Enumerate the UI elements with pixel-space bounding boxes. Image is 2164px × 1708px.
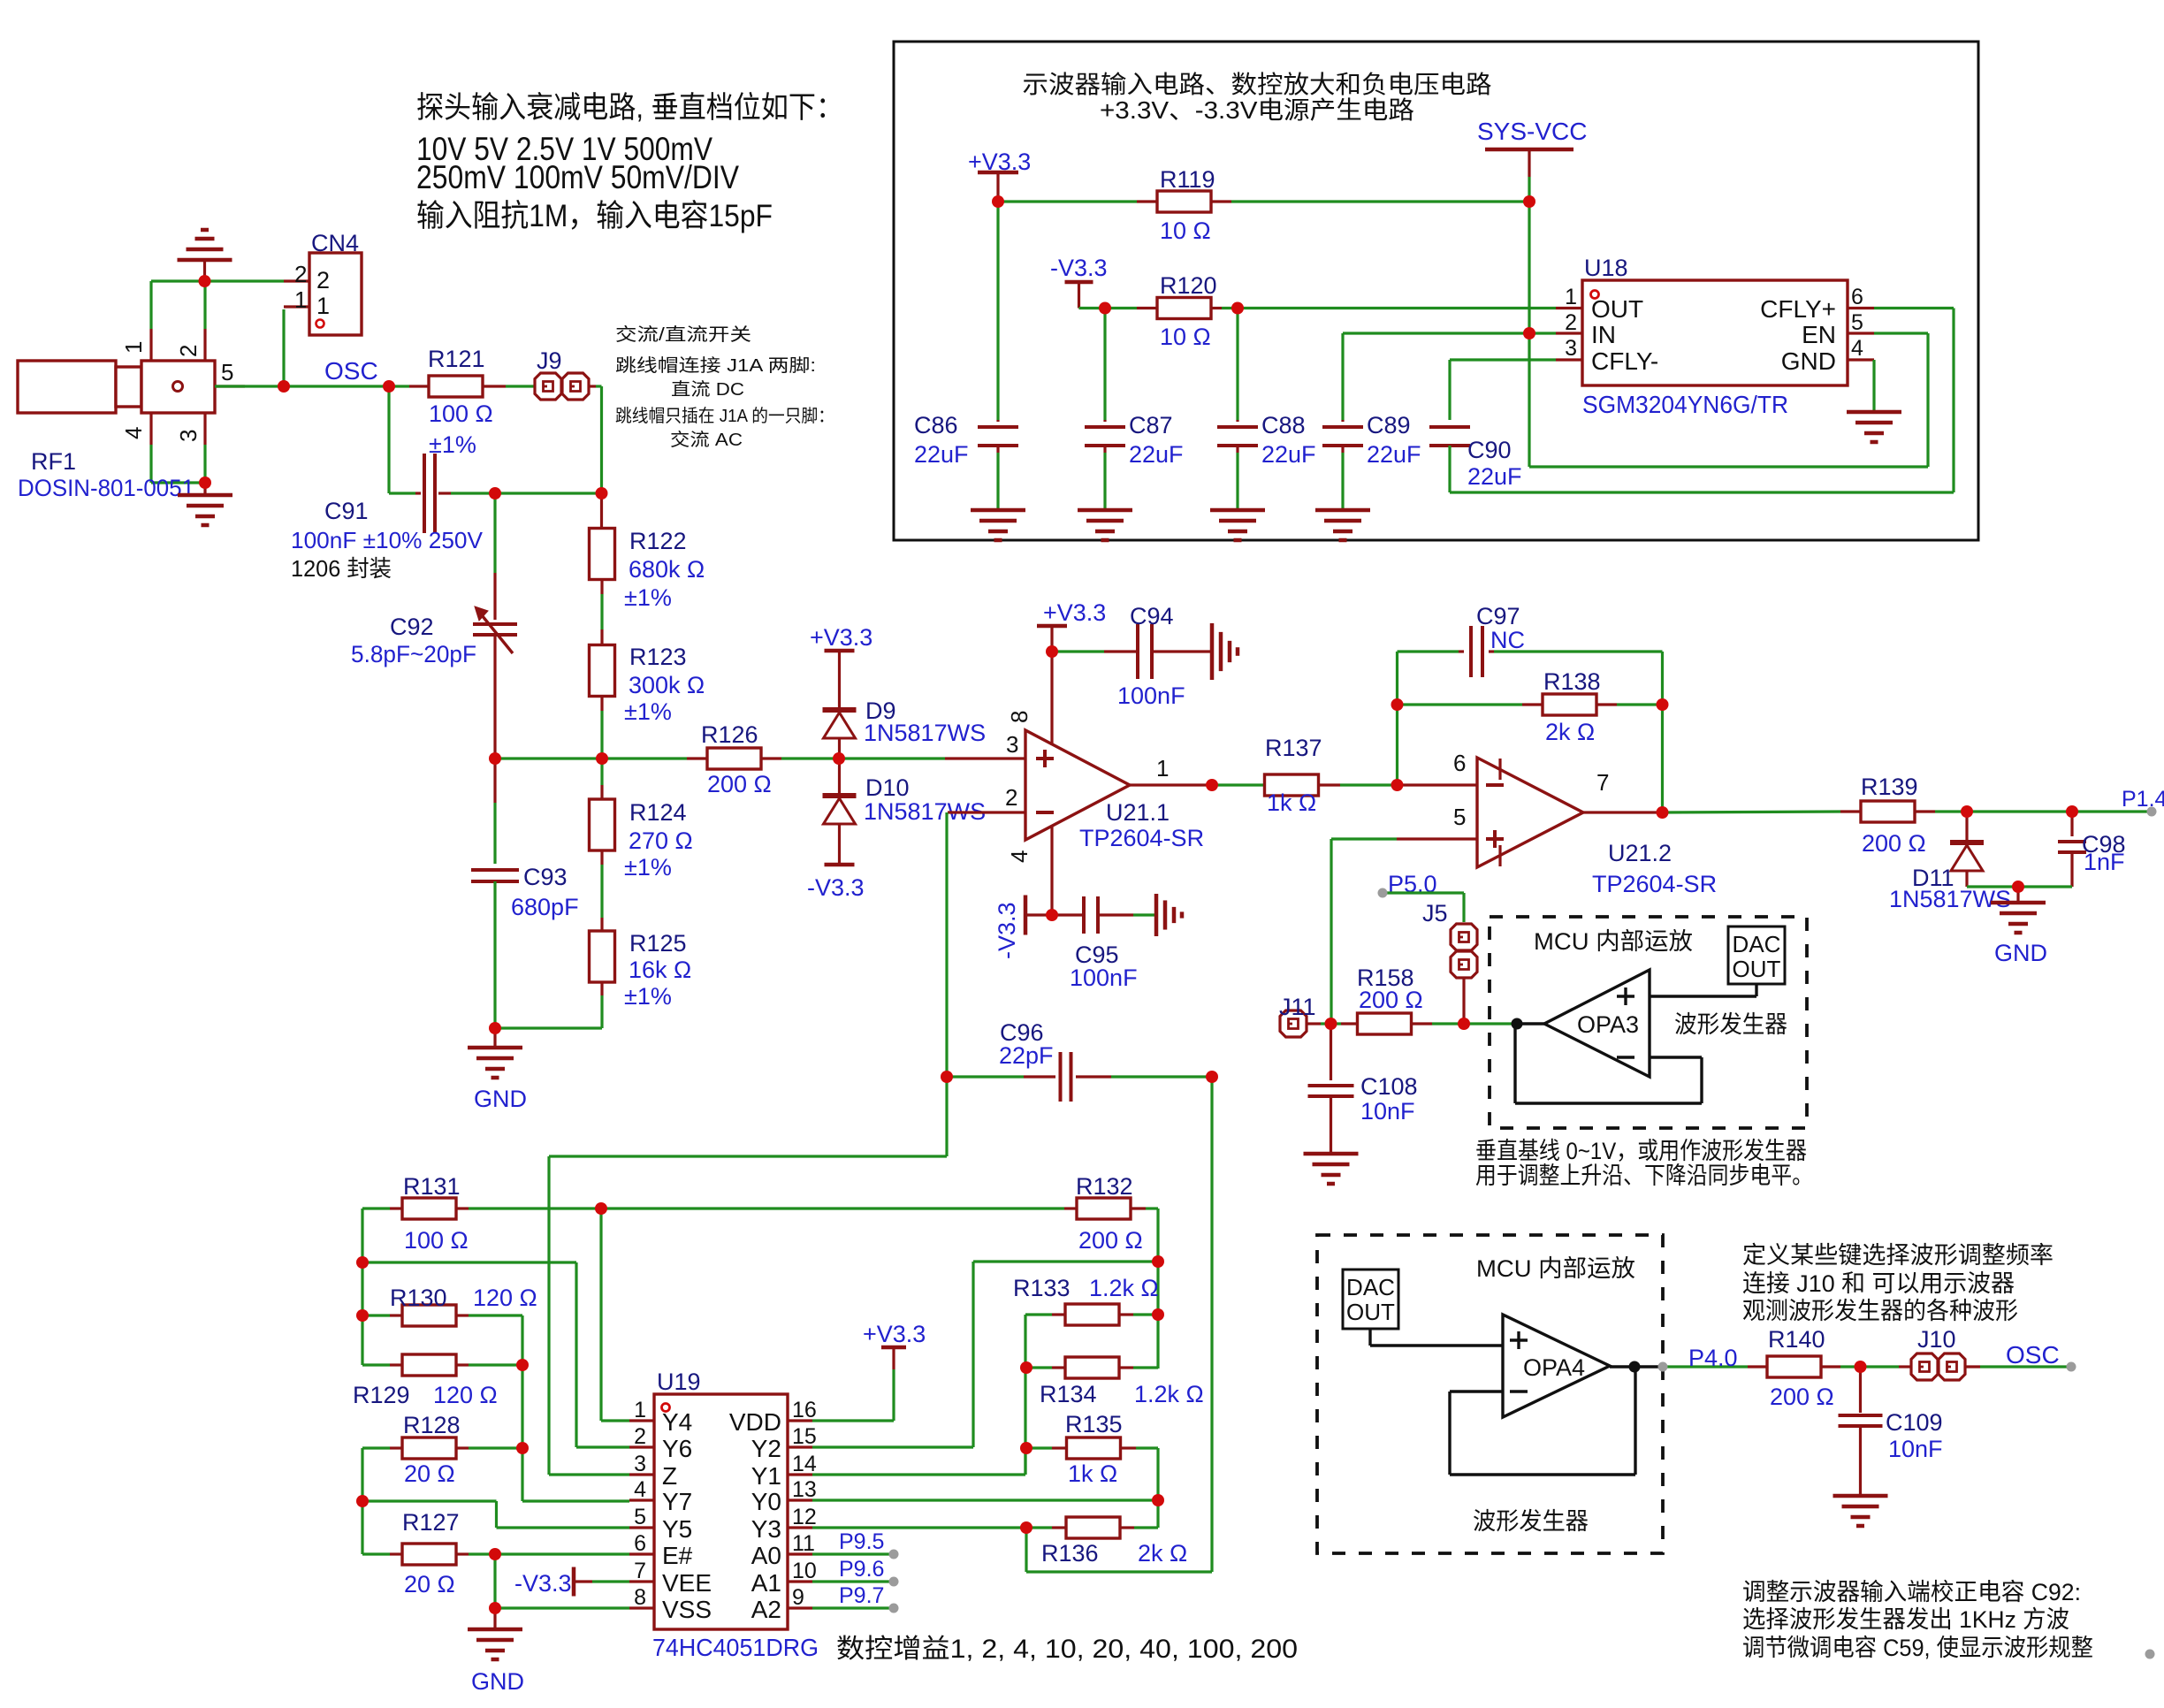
svg-text:20 Ω: 20 Ω [404, 1460, 455, 1487]
svg-text:TP2604-SR: TP2604-SR [1079, 825, 1204, 851]
svg-text:R135: R135 [1065, 1411, 1123, 1437]
svg-text:300k Ω: 300k Ω [629, 672, 705, 698]
svg-text:11: 11 [792, 1531, 815, 1556]
svg-text:DAC: DAC [1346, 1274, 1395, 1300]
svg-text:-V3.3: -V3.3 [807, 874, 865, 901]
svg-text:R129: R129 [353, 1382, 410, 1408]
svg-text:垂直基线 0~1V，或用作波形发生器: 垂直基线 0~1V，或用作波形发生器 [1475, 1138, 1807, 1164]
svg-text:探头输入衰减电路, 垂直档位如下：: 探头输入衰减电路, 垂直档位如下： [416, 91, 843, 125]
svg-text:R121: R121 [428, 346, 485, 372]
svg-text:输入阻抗1M，输入电容15pF: 输入阻抗1M，输入电容15pF [416, 199, 773, 233]
svg-text:C88: C88 [1261, 412, 1306, 438]
svg-text:连接 J10 和 可以用示波器: 连接 J10 和 可以用示波器 [1742, 1270, 2015, 1297]
svg-text:5: 5 [634, 1505, 646, 1529]
svg-text:22uF: 22uF [1467, 463, 1522, 490]
svg-text:R128: R128 [403, 1412, 461, 1438]
svg-text:CFLY+: CFLY+ [1760, 295, 1836, 323]
svg-text:+3.3V、-3.3V电源产生电路: +3.3V、-3.3V电源产生电路 [1100, 96, 1414, 124]
svg-text:数控增益1, 2, 4, 10, 20, 40, 100,: 数控增益1, 2, 4, 10, 20, 40, 100, 200 [836, 1635, 1298, 1664]
svg-text:6: 6 [634, 1531, 646, 1556]
svg-text:C89: C89 [1367, 412, 1411, 438]
svg-text:R120: R120 [1160, 272, 1217, 299]
svg-text:120 Ω: 120 Ω [433, 1382, 498, 1408]
svg-text:120 Ω: 120 Ω [473, 1285, 537, 1311]
svg-text:12: 12 [792, 1505, 817, 1529]
svg-text:1: 1 [316, 293, 330, 319]
svg-text:1: 1 [1156, 755, 1169, 782]
svg-text:680pF: 680pF [511, 894, 579, 920]
svg-text:C93: C93 [523, 864, 568, 890]
svg-text:示波器输入电路、数控放大和负电压电路: 示波器输入电路、数控放大和负电压电路 [1023, 71, 1492, 98]
svg-text:P9.7: P9.7 [839, 1583, 884, 1608]
svg-text:2: 2 [634, 1424, 646, 1449]
svg-text:R119: R119 [1160, 166, 1215, 193]
svg-text:D10: D10 [865, 774, 910, 801]
svg-text:R136: R136 [1041, 1540, 1099, 1567]
svg-text:22uF: 22uF [914, 441, 969, 468]
svg-text:交流 AC: 交流 AC [670, 430, 743, 450]
svg-text:2: 2 [1565, 310, 1577, 335]
svg-text:R122: R122 [629, 528, 687, 554]
svg-text:IN: IN [1591, 321, 1616, 348]
svg-text:GND: GND [1781, 347, 1836, 375]
svg-text:1k Ω: 1k Ω [1267, 789, 1316, 816]
svg-text:SYS-VCC: SYS-VCC [1477, 118, 1587, 145]
svg-text:15: 15 [792, 1424, 817, 1449]
svg-text:U21.1: U21.1 [1106, 799, 1170, 826]
svg-text:OPA3: OPA3 [1577, 1011, 1639, 1038]
svg-text:22pF: 22pF [999, 1042, 1054, 1069]
svg-text:10nF: 10nF [1888, 1436, 1943, 1462]
svg-text:1N5817WS: 1N5817WS [864, 720, 986, 746]
svg-text:2: 2 [316, 267, 330, 294]
svg-text:100nF ±10% 250V: 100nF ±10% 250V [291, 527, 484, 553]
svg-text:GND: GND [1994, 940, 2047, 966]
svg-text:20 Ω: 20 Ω [404, 1571, 455, 1597]
svg-text:VEE: VEE [662, 1569, 712, 1597]
svg-text:5.8pF~20pF: 5.8pF~20pF [351, 641, 476, 667]
svg-text:CFLY-: CFLY- [1591, 347, 1658, 375]
svg-text:调整示波器输入端校正电容 C92:: 调整示波器输入端校正电容 C92: [1742, 1579, 2081, 1605]
svg-text:4: 4 [120, 427, 147, 439]
svg-text:R124: R124 [629, 799, 687, 826]
svg-text:E#: E# [662, 1542, 693, 1569]
svg-text:R126: R126 [701, 721, 758, 748]
svg-text:MCU 内部运放: MCU 内部运放 [1476, 1255, 1635, 1282]
svg-text:250mV 100mV 50mV/DIV: 250mV 100mV 50mV/DIV [416, 159, 739, 195]
svg-text:SGM3204YN6G/TR: SGM3204YN6G/TR [1582, 391, 1788, 418]
svg-text:10 Ω: 10 Ω [1160, 217, 1211, 244]
svg-text:100 Ω: 100 Ω [429, 400, 493, 427]
svg-text:2: 2 [294, 261, 307, 287]
svg-text:R140: R140 [1768, 1326, 1825, 1353]
svg-text:10: 10 [792, 1559, 817, 1583]
svg-text:1N5817WS: 1N5817WS [1889, 886, 2011, 912]
svg-text:2: 2 [175, 345, 202, 357]
svg-text:Y0: Y0 [751, 1488, 781, 1515]
svg-text:MCU 内部运放: MCU 内部运放 [1534, 928, 1693, 955]
svg-text:EN: EN [1802, 321, 1836, 348]
svg-text:1206 封装: 1206 封装 [291, 555, 392, 582]
svg-text:RF1: RF1 [31, 448, 76, 475]
svg-text:7: 7 [634, 1559, 646, 1583]
svg-text:+V3.3: +V3.3 [863, 1321, 926, 1347]
svg-text:1k Ω: 1k Ω [1068, 1460, 1117, 1487]
svg-text:Y2: Y2 [751, 1435, 781, 1462]
svg-text:±1%: ±1% [624, 584, 672, 611]
svg-text:Y3: Y3 [751, 1515, 781, 1543]
svg-text:P9.6: P9.6 [839, 1557, 884, 1582]
svg-text:+V3.3: +V3.3 [1043, 599, 1106, 626]
svg-text:OPA4: OPA4 [1523, 1354, 1585, 1381]
svg-text:用于调整上升沿、下降沿同步电平。: 用于调整上升沿、下降沿同步电平。 [1475, 1163, 1813, 1189]
svg-text:200 Ω: 200 Ω [707, 771, 772, 797]
svg-text:C108: C108 [1360, 1073, 1418, 1100]
svg-text:CN4: CN4 [311, 230, 359, 256]
svg-text:22uF: 22uF [1367, 441, 1421, 468]
svg-text:2: 2 [1005, 784, 1017, 811]
svg-text:8: 8 [1006, 711, 1032, 723]
svg-text:200 Ω: 200 Ω [1078, 1227, 1143, 1254]
svg-text:100nF: 100nF [1117, 682, 1185, 709]
svg-text:C91: C91 [324, 498, 369, 524]
svg-text:直流 DC: 直流 DC [671, 379, 744, 400]
svg-text:±1%: ±1% [624, 983, 672, 1010]
svg-text:200 Ω: 200 Ω [1359, 987, 1423, 1013]
svg-text:C94: C94 [1130, 603, 1174, 629]
svg-text:OSC: OSC [324, 357, 378, 385]
svg-text:C86: C86 [914, 412, 958, 438]
svg-text:1: 1 [294, 286, 307, 313]
svg-text:C109: C109 [1886, 1409, 1943, 1436]
svg-text:1: 1 [1565, 285, 1577, 309]
svg-text:1.2k Ω: 1.2k Ω [1089, 1275, 1159, 1301]
svg-text:C90: C90 [1467, 437, 1512, 463]
svg-text:3: 3 [1565, 336, 1577, 361]
svg-text:C87: C87 [1129, 412, 1173, 438]
svg-text:10 Ω: 10 Ω [1160, 324, 1211, 350]
svg-text:200 Ω: 200 Ω [1862, 830, 1926, 857]
svg-text:A0: A0 [751, 1542, 781, 1569]
svg-text:4: 4 [634, 1477, 646, 1502]
svg-text:波形发生器: 波形发生器 [1674, 1011, 1787, 1038]
svg-text:DAC: DAC [1733, 931, 1781, 957]
svg-text:7: 7 [1596, 769, 1609, 796]
svg-text:跳线帽连接 J1A 两脚:: 跳线帽连接 J1A 两脚: [615, 355, 816, 376]
svg-text:定义某些键选择波形调整频率: 定义某些键选择波形调整频率 [1742, 1242, 2054, 1269]
svg-text:OUT: OUT [1591, 295, 1643, 323]
svg-text:Y1: Y1 [751, 1462, 781, 1490]
svg-text:1: 1 [120, 341, 147, 354]
svg-text:680k Ω: 680k Ω [629, 556, 705, 583]
svg-text:OUT: OUT [1733, 956, 1781, 982]
svg-text:-V3.3: -V3.3 [1050, 255, 1108, 281]
svg-text:R123: R123 [629, 644, 687, 670]
svg-text:J10: J10 [1917, 1326, 1956, 1353]
svg-text:Y6: Y6 [662, 1435, 692, 1462]
svg-text:16: 16 [792, 1398, 817, 1422]
svg-text:R139: R139 [1861, 774, 1918, 800]
svg-text:14: 14 [792, 1452, 817, 1476]
svg-text:GND: GND [471, 1668, 524, 1695]
svg-text:+V3.3: +V3.3 [810, 624, 872, 651]
svg-text:3: 3 [1006, 731, 1018, 758]
svg-text:R133: R133 [1013, 1275, 1071, 1301]
svg-text:R131: R131 [403, 1173, 461, 1200]
svg-text:100nF: 100nF [1070, 965, 1138, 991]
svg-text:74HC4051DRG: 74HC4051DRG [652, 1634, 819, 1661]
svg-text:J11: J11 [1279, 994, 1316, 1020]
svg-text:A2: A2 [751, 1596, 781, 1623]
svg-text:±1%: ±1% [624, 698, 672, 725]
svg-text:8: 8 [634, 1585, 646, 1610]
svg-text:U19: U19 [657, 1369, 701, 1395]
svg-text:选择波形发生器发出 1KHz 方波: 选择波形发生器发出 1KHz 方波 [1742, 1606, 2069, 1633]
svg-text:GND: GND [474, 1086, 527, 1112]
svg-text:270 Ω: 270 Ω [629, 827, 693, 854]
svg-text:3: 3 [634, 1452, 646, 1476]
svg-text:6: 6 [1851, 285, 1863, 309]
svg-text:1: 1 [634, 1398, 646, 1422]
svg-text:9: 9 [792, 1585, 804, 1610]
svg-text:4: 4 [1006, 850, 1032, 863]
svg-text:OSC: OSC [2006, 1341, 2060, 1369]
svg-text:2k Ω: 2k Ω [1138, 1540, 1187, 1567]
svg-text:Y4: Y4 [662, 1408, 692, 1436]
svg-text:13: 13 [792, 1477, 817, 1502]
svg-text:5: 5 [221, 359, 233, 385]
svg-text:C97: C97 [1476, 603, 1520, 629]
svg-text:J9: J9 [537, 347, 562, 374]
svg-text:J5: J5 [1422, 900, 1448, 926]
svg-text:22uF: 22uF [1261, 441, 1316, 468]
svg-text:R125: R125 [629, 930, 687, 957]
svg-text:P9.5: P9.5 [839, 1529, 884, 1554]
svg-text:10nF: 10nF [1360, 1098, 1415, 1125]
svg-text:-V3.3: -V3.3 [514, 1570, 572, 1597]
svg-text:16k Ω: 16k Ω [629, 957, 691, 983]
svg-text:U18: U18 [1584, 255, 1628, 281]
svg-text:U21.2: U21.2 [1608, 840, 1672, 866]
svg-text:6: 6 [1453, 750, 1466, 776]
svg-text:交流/直流开关: 交流/直流开关 [615, 324, 751, 345]
svg-text:P4.0: P4.0 [1688, 1345, 1738, 1371]
svg-text:A1: A1 [751, 1569, 781, 1597]
svg-text:5: 5 [1453, 804, 1466, 830]
svg-text:Y7: Y7 [662, 1488, 692, 1515]
svg-text:-V3.3: -V3.3 [994, 902, 1020, 959]
svg-text:22uF: 22uF [1129, 441, 1184, 468]
svg-text:VDD: VDD [729, 1408, 781, 1436]
svg-text:±1%: ±1% [624, 854, 672, 881]
svg-text:波形发生器: 波形发生器 [1473, 1508, 1589, 1535]
svg-text:Y5: Y5 [662, 1515, 692, 1543]
svg-text:R137: R137 [1265, 735, 1322, 761]
svg-text:100 Ω: 100 Ω [404, 1227, 469, 1254]
svg-text:DOSIN-801-0051: DOSIN-801-0051 [18, 475, 194, 501]
svg-text:2k Ω: 2k Ω [1545, 719, 1595, 745]
svg-text:VSS: VSS [662, 1596, 712, 1623]
svg-text:TP2604-SR: TP2604-SR [1592, 871, 1717, 897]
svg-text:Z: Z [662, 1462, 677, 1490]
svg-text:观测波形发生器的各种波形: 观测波形发生器的各种波形 [1742, 1298, 2018, 1324]
svg-text:200 Ω: 200 Ω [1770, 1384, 1834, 1410]
svg-text:OUT: OUT [1346, 1299, 1395, 1325]
svg-text:C92: C92 [390, 614, 434, 640]
svg-text:3: 3 [175, 430, 202, 442]
svg-text:R138: R138 [1543, 668, 1601, 695]
svg-text:R134: R134 [1040, 1381, 1097, 1407]
svg-text:R132: R132 [1076, 1173, 1133, 1200]
svg-text:1nF: 1nF [2084, 849, 2125, 875]
svg-text:5: 5 [1851, 310, 1863, 335]
svg-text:NC: NC [1490, 627, 1525, 653]
svg-text:1.2k Ω: 1.2k Ω [1134, 1381, 1204, 1407]
svg-text:调节微调电容 C59, 使显示波形规整: 调节微调电容 C59, 使显示波形规整 [1742, 1635, 2093, 1661]
svg-text:P1.4: P1.4 [2122, 787, 2164, 812]
svg-text:R127: R127 [402, 1509, 460, 1536]
svg-text:4: 4 [1851, 336, 1863, 361]
svg-text:跳线帽只插在 J1A 的一只脚：: 跳线帽只插在 J1A 的一只脚： [615, 406, 834, 426]
svg-text:R130: R130 [390, 1285, 447, 1311]
